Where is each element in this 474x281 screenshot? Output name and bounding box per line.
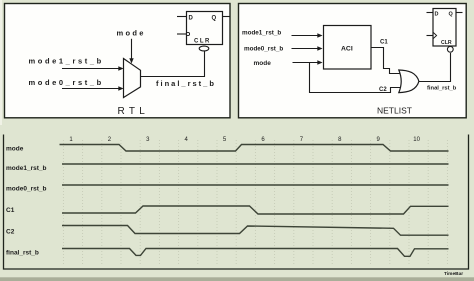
flip-flop U3 (NETLIST) bbox=[433, 9, 456, 47]
time ruler numbers bbox=[69, 137, 420, 143]
svg-text:final_rst_b: final_rst_b bbox=[6, 249, 39, 256]
bottom dark strip bbox=[0, 277, 474, 281]
NETLIST panel frame bbox=[239, 4, 467, 118]
pin Q stub (RTL FF) bbox=[223, 16, 230, 18]
svg-text:CLR: CLR bbox=[441, 40, 452, 46]
mode1_rst_b label (NETLIST) bbox=[242, 30, 281, 37]
svg-text:mode0_rst_b: mode0_rst_b bbox=[244, 46, 283, 53]
svg-text:mode1_rst_b: mode1_rst_b bbox=[29, 57, 104, 66]
pin D stub (NETLIST FF) bbox=[427, 12, 434, 14]
wire mode1_rst_b to ACI bbox=[292, 33, 323, 37]
svg-text:mode0_rst_b: mode0_rst_b bbox=[6, 186, 46, 193]
mode1_rst_b label (RTL) bbox=[29, 57, 104, 66]
wire mode select bbox=[129, 39, 133, 64]
or-gate G1 bbox=[399, 70, 419, 93]
C2 net label bbox=[379, 87, 387, 93]
waveform C2 bbox=[62, 226, 449, 236]
svg-text:mode0_rst_b: mode0_rst_b bbox=[29, 78, 104, 87]
CLR bubble (NETLIST FF) bbox=[447, 46, 453, 52]
waveform mode1_rst_b bbox=[62, 163, 449, 165]
pin Q stub (NETLIST FF) bbox=[456, 12, 463, 14]
mode label (RTL) bbox=[117, 29, 146, 38]
wire C1 from ACI to OR gate bbox=[371, 48, 400, 74]
waveform mode0_rst_b bbox=[62, 184, 449, 186]
mode label (NETLIST) bbox=[254, 60, 272, 67]
waveform final_rst_b bbox=[62, 249, 449, 257]
wire mode to ACI bbox=[293, 60, 323, 64]
signal name labels bbox=[6, 146, 46, 257]
svg-text:RTL: RTL bbox=[118, 106, 150, 117]
svg-text:mode1_rst_b: mode1_rst_b bbox=[6, 165, 46, 172]
final_rst_b label (RTL) bbox=[156, 79, 216, 88]
svg-text:mode1_rst_b: mode1_rst_b bbox=[242, 30, 281, 37]
svg-text:TimeBar: TimeBar bbox=[444, 271, 463, 277]
svg-text:CLR: CLR bbox=[194, 39, 211, 45]
svg-text:ACI: ACI bbox=[341, 46, 353, 53]
RTL panel frame bbox=[5, 4, 231, 118]
svg-text:C1: C1 bbox=[380, 40, 388, 46]
wire mode0_rst_b bbox=[62, 86, 124, 90]
C1 net label bbox=[380, 40, 388, 46]
wire mux output to CLR bbox=[141, 51, 205, 77]
CLR bubble (RTL FF) bbox=[199, 46, 209, 51]
final_rst_b label (NETLIST) bbox=[427, 86, 457, 92]
flip-flop U1 (RTL) bbox=[187, 12, 223, 45]
svg-text:final_rst_b: final_rst_b bbox=[427, 86, 457, 92]
pin clock stub (RTL FF) bbox=[177, 32, 190, 35]
svg-text:C2: C2 bbox=[379, 87, 387, 93]
svg-text:mode: mode bbox=[6, 146, 24, 153]
RTL caption bbox=[118, 106, 150, 117]
waveform C1 bbox=[62, 206, 449, 214]
pin clock stub (NETLIST FF) bbox=[427, 33, 437, 39]
svg-text:D: D bbox=[435, 12, 439, 18]
NETLIST caption bbox=[377, 106, 412, 116]
svg-text:Q: Q bbox=[449, 12, 454, 18]
TimeBar label bbox=[444, 271, 463, 277]
ACI block U2 bbox=[324, 26, 372, 70]
grid dotted verticals bbox=[63, 140, 447, 266]
pin D stub (RTL FF) bbox=[177, 16, 187, 18]
mode0_rst_b label (RTL) bbox=[29, 78, 104, 87]
svg-text:D: D bbox=[189, 16, 194, 22]
wire mode branch to OR gate (C2 path) bbox=[310, 63, 401, 93]
svg-text:mode: mode bbox=[254, 60, 272, 67]
svg-text:mode: mode bbox=[117, 29, 146, 38]
wire mode0_rst_b to ACI bbox=[292, 46, 323, 50]
svg-text:final_rst_b: final_rst_b bbox=[156, 79, 216, 88]
svg-text:C1: C1 bbox=[6, 207, 15, 214]
wire OR output to CLR bbox=[419, 53, 451, 82]
svg-text:10: 10 bbox=[413, 137, 420, 143]
svg-text:C2: C2 bbox=[6, 229, 15, 236]
svg-text:NETLIST: NETLIST bbox=[377, 106, 412, 116]
waveform mode bbox=[60, 145, 449, 152]
mux M1 bbox=[124, 59, 141, 98]
mode0_rst_b label (NETLIST) bbox=[244, 46, 283, 53]
timing panel frame bbox=[4, 135, 469, 270]
wire mode1_rst_b bbox=[62, 66, 124, 70]
svg-text:Q: Q bbox=[212, 16, 217, 22]
